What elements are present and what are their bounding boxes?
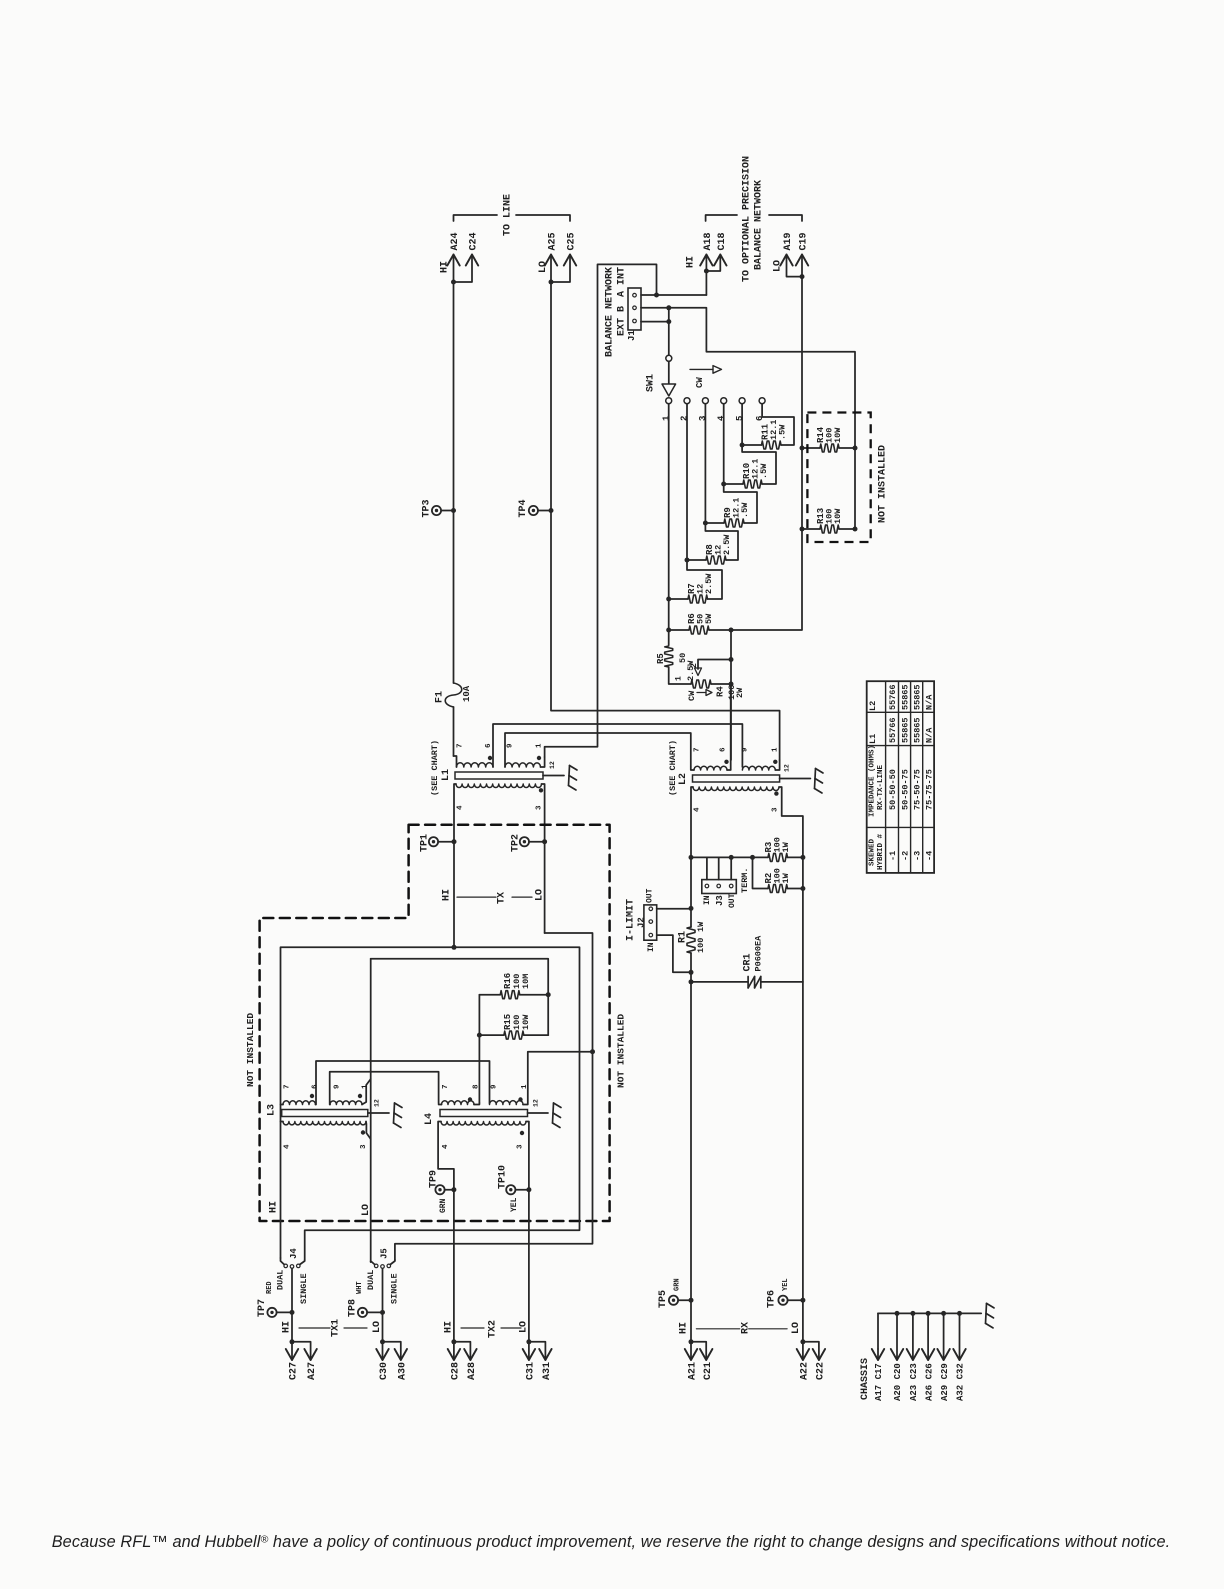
svg-text:C31: C31 <box>526 1362 537 1380</box>
svg-text:-4: -4 <box>924 851 934 861</box>
svg-text:5W: 5W <box>704 613 714 624</box>
svg-text:SINGLE: SINGLE <box>389 1273 399 1304</box>
svg-text:J4: J4 <box>289 1248 299 1259</box>
svg-text:4: 4 <box>442 1144 450 1149</box>
svg-text:3: 3 <box>772 807 780 812</box>
svg-text:10W: 10W <box>833 427 843 443</box>
svg-text:10W: 10W <box>833 508 843 524</box>
svg-text:C18: C18 <box>717 232 728 250</box>
svg-text:1: 1 <box>661 415 671 421</box>
svg-text:LO: LO <box>361 1204 372 1216</box>
svg-text:CW: CW <box>687 690 697 701</box>
svg-text:A23 C23: A23 C23 <box>909 1363 919 1401</box>
svg-text:RED: RED <box>266 1281 274 1294</box>
svg-text:12: 12 <box>532 1099 539 1107</box>
svg-text:C27: C27 <box>289 1362 300 1380</box>
svg-text:2: 2 <box>680 416 690 421</box>
svg-text:J2: J2 <box>637 917 647 928</box>
svg-text:HYBRID #: HYBRID # <box>877 833 885 870</box>
svg-text:EXT B: EXT B <box>617 306 628 336</box>
svg-text:LO: LO <box>773 260 784 272</box>
svg-text:HI: HI <box>444 1321 455 1333</box>
svg-text:A26 C26: A26 C26 <box>924 1363 934 1401</box>
svg-text:1: 1 <box>536 743 544 748</box>
svg-text:TX2: TX2 <box>488 1320 499 1338</box>
svg-text:TP1: TP1 <box>420 834 431 852</box>
svg-text:-2: -2 <box>901 851 911 861</box>
svg-text:A24: A24 <box>450 232 461 250</box>
svg-text:1: 1 <box>361 1084 369 1089</box>
svg-text:TP4: TP4 <box>518 499 529 517</box>
svg-text:10W: 10W <box>521 1014 531 1030</box>
svg-text:Because RFL™ and Hubbell® have: Because RFL™ and Hubbell® have a policy … <box>52 1533 1171 1551</box>
svg-text:3: 3 <box>698 416 708 421</box>
svg-text:.5W: .5W <box>759 463 769 479</box>
svg-text:1W: 1W <box>781 841 791 852</box>
svg-text:LO: LO <box>791 1322 802 1334</box>
svg-text:LO: LO <box>372 1321 383 1333</box>
svg-text:TX: TX <box>497 892 508 904</box>
svg-text:HI: HI <box>678 1322 689 1334</box>
svg-text:I-LIMIT: I-LIMIT <box>626 899 637 941</box>
svg-text:A27: A27 <box>307 1362 318 1380</box>
svg-text:7: 7 <box>284 1084 292 1089</box>
svg-text:55766: 55766 <box>888 684 898 710</box>
svg-text:BALANCE NETWORK: BALANCE NETWORK <box>754 180 765 270</box>
svg-text:9: 9 <box>507 743 515 748</box>
svg-text:J1: J1 <box>627 330 637 341</box>
svg-text:6: 6 <box>485 743 493 748</box>
svg-text:IMPEDANCE (OHMS): IMPEDANCE (OHMS) <box>869 745 877 817</box>
svg-text:R1: R1 <box>678 931 689 943</box>
svg-text:8: 8 <box>472 1084 480 1089</box>
svg-text:55865: 55865 <box>901 717 911 743</box>
svg-text:TP9: TP9 <box>428 1170 439 1188</box>
svg-text:TERM.: TERM. <box>740 867 750 893</box>
svg-text:A17 C17: A17 C17 <box>874 1363 884 1401</box>
svg-text:A20 C20: A20 C20 <box>893 1363 903 1401</box>
svg-text:10M: 10M <box>521 974 531 989</box>
svg-text:LO: LO <box>538 261 549 273</box>
svg-text:2W: 2W <box>735 687 745 698</box>
svg-text:50-50-50: 50-50-50 <box>888 769 898 810</box>
svg-text:55865: 55865 <box>913 717 923 743</box>
svg-text:TP3: TP3 <box>422 499 433 517</box>
svg-text:12: 12 <box>373 1099 380 1107</box>
svg-text:5: 5 <box>735 416 745 421</box>
svg-text:L1: L1 <box>441 769 452 781</box>
svg-text:3: 3 <box>517 1144 525 1149</box>
svg-text:R5: R5 <box>656 653 666 664</box>
svg-text:-3: -3 <box>913 851 923 861</box>
svg-text:GRN: GRN <box>674 1278 682 1291</box>
svg-text:1W: 1W <box>696 921 706 932</box>
svg-text:55865: 55865 <box>901 684 911 710</box>
svg-text:9: 9 <box>334 1084 342 1089</box>
svg-text:C19: C19 <box>799 232 810 250</box>
svg-text:TO OPTIONAL PRECISION: TO OPTIONAL PRECISION <box>742 156 753 282</box>
svg-text:J5: J5 <box>379 1248 389 1259</box>
svg-text:1: 1 <box>772 747 780 752</box>
svg-text:YEL: YEL <box>510 1197 519 1212</box>
svg-text:TP2: TP2 <box>511 834 522 852</box>
svg-text:A29 C29: A29 C29 <box>940 1363 950 1401</box>
svg-text:1: 1 <box>674 676 683 681</box>
svg-text:L4: L4 <box>424 1113 435 1125</box>
svg-text:75-75-75: 75-75-75 <box>924 769 934 810</box>
svg-text:NOT INSTALLED: NOT INSTALLED <box>878 445 889 523</box>
svg-text:10A: 10A <box>462 685 472 702</box>
svg-text:6: 6 <box>720 747 728 752</box>
svg-text:-1: -1 <box>888 851 898 861</box>
svg-text:C21: C21 <box>703 1362 714 1380</box>
svg-text:4: 4 <box>716 415 726 421</box>
svg-text:HI: HI <box>686 256 697 268</box>
svg-text:YEL: YEL <box>782 1278 790 1291</box>
svg-text:4: 4 <box>457 805 465 810</box>
svg-text:TX1: TX1 <box>331 1319 342 1337</box>
svg-text:A19: A19 <box>783 232 794 250</box>
svg-text:RX-TX-LINE: RX-TX-LINE <box>877 764 885 810</box>
svg-text:50-50-75: 50-50-75 <box>901 769 911 810</box>
svg-text:TP6: TP6 <box>767 1290 778 1308</box>
svg-text:C30: C30 <box>379 1362 390 1380</box>
svg-text:A31: A31 <box>542 1362 553 1380</box>
svg-text:12: 12 <box>783 764 790 772</box>
svg-text:NOT INSTALLED: NOT INSTALLED <box>245 1013 256 1087</box>
svg-text:IN: IN <box>703 895 712 905</box>
svg-text:12: 12 <box>549 761 556 769</box>
svg-text:2.5W: 2.5W <box>704 573 714 594</box>
svg-text:L2: L2 <box>678 773 689 785</box>
svg-text:L1: L1 <box>868 734 878 744</box>
svg-text:LO: LO <box>535 889 546 901</box>
svg-text:3: 3 <box>536 805 544 810</box>
svg-text:BALANCE NETWORK: BALANCE NETWORK <box>605 267 616 357</box>
svg-text:RX: RX <box>740 1322 751 1334</box>
svg-text:DUAL: DUAL <box>366 1270 376 1290</box>
svg-text:.5W: .5W <box>740 502 750 518</box>
svg-text:LO: LO <box>519 1321 530 1333</box>
svg-text:TP8: TP8 <box>347 1299 358 1317</box>
svg-text:TP7: TP7 <box>257 1299 268 1317</box>
svg-text:SKEWED: SKEWED <box>869 838 877 866</box>
svg-text:TP10: TP10 <box>498 1165 509 1189</box>
svg-text:A32 C32: A32 C32 <box>956 1363 966 1401</box>
svg-text:CW: CW <box>695 377 705 388</box>
svg-text:C22: C22 <box>816 1362 827 1380</box>
svg-text:C28: C28 <box>451 1362 462 1380</box>
svg-text:7: 7 <box>442 1084 450 1089</box>
svg-text:WHT: WHT <box>356 1281 364 1294</box>
svg-text:(SEE CHART): (SEE CHART) <box>430 740 440 796</box>
svg-text:A INT: A INT <box>617 267 628 297</box>
svg-text:TP5: TP5 <box>658 1290 669 1308</box>
svg-text:NOT INSTALLED: NOT INSTALLED <box>615 1014 626 1088</box>
svg-text:9: 9 <box>491 1084 499 1089</box>
svg-text:1W: 1W <box>781 872 791 883</box>
svg-text:A30: A30 <box>397 1362 408 1380</box>
svg-text:P0600EA: P0600EA <box>754 935 764 972</box>
svg-text:TO LINE: TO LINE <box>503 194 514 236</box>
svg-text:HI: HI <box>269 1201 280 1213</box>
svg-text:7: 7 <box>457 743 465 748</box>
svg-text:4: 4 <box>284 1144 292 1149</box>
svg-text:HI: HI <box>281 1321 292 1333</box>
svg-text:9: 9 <box>742 747 750 752</box>
svg-text:C24: C24 <box>469 232 480 250</box>
svg-text:7: 7 <box>693 747 701 752</box>
svg-text:F1: F1 <box>435 691 446 703</box>
svg-text:A22: A22 <box>800 1362 811 1380</box>
svg-text:(SEE CHART): (SEE CHART) <box>668 740 678 796</box>
svg-text:OUT: OUT <box>645 888 654 903</box>
svg-text:CR1: CR1 <box>743 953 754 971</box>
svg-text:HI: HI <box>440 261 451 273</box>
svg-text:DUAL: DUAL <box>275 1270 285 1290</box>
svg-text:1: 1 <box>521 1084 529 1089</box>
svg-text:55865: 55865 <box>913 684 923 710</box>
svg-text:2: 2 <box>690 663 699 668</box>
svg-text:A28: A28 <box>467 1362 478 1380</box>
svg-text:N/A: N/A <box>924 727 934 743</box>
svg-text:55766: 55766 <box>888 717 898 743</box>
svg-text:L2: L2 <box>868 701 878 711</box>
svg-text:CHASSIS: CHASSIS <box>860 1358 871 1400</box>
svg-text:.5W: .5W <box>778 424 788 440</box>
svg-text:6: 6 <box>311 1084 319 1089</box>
svg-text:HI: HI <box>442 889 453 901</box>
svg-text:100: 100 <box>696 938 706 953</box>
svg-text:IN: IN <box>647 942 656 952</box>
svg-text:N/A: N/A <box>924 694 934 710</box>
svg-text:C25: C25 <box>567 232 578 250</box>
svg-text:2.5W: 2.5W <box>722 534 732 555</box>
svg-text:GRN: GRN <box>439 1198 448 1213</box>
svg-text:OUT: OUT <box>728 893 737 908</box>
svg-text:SW1: SW1 <box>646 374 657 392</box>
svg-text:A25: A25 <box>548 232 559 250</box>
svg-text:3: 3 <box>360 1144 368 1149</box>
svg-text:R4: R4 <box>716 686 726 697</box>
svg-text:J3: J3 <box>715 895 725 906</box>
svg-text:L3: L3 <box>267 1104 278 1116</box>
svg-text:75-50-75: 75-50-75 <box>913 769 923 810</box>
svg-text:A21: A21 <box>688 1362 699 1380</box>
svg-text:SINGLE: SINGLE <box>299 1273 309 1304</box>
svg-text:4: 4 <box>693 807 701 812</box>
svg-text:2.5W: 2.5W <box>686 660 696 681</box>
svg-text:A18: A18 <box>703 232 714 250</box>
